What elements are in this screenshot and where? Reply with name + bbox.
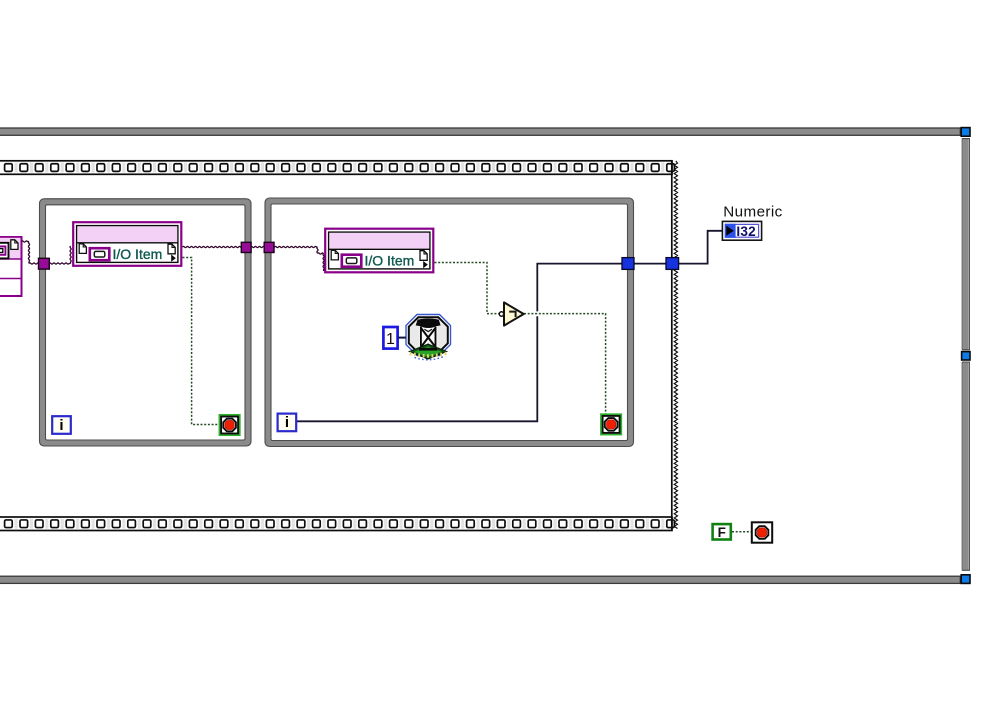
wire G2 (boolean dotted, N2 to Not gate) [435,263,500,314]
label Numeric [723,203,782,220]
flat sequence structure top border (filmstrip) [0,161,674,175]
outer while loop right border [962,138,970,570]
svg-text:I/O Item: I/O Item [365,253,415,269]
wire W2 (I/O wavy, N1 to N2 through tunnels T2 T3) [183,246,325,271]
property node N1 (I/O Item, left loop) [73,222,181,266]
svg-text:F: F [718,525,726,540]
stop button S2 (loop 2 condition terminal) [601,414,621,434]
svg-text:i: i [285,414,289,431]
iteration terminal [i] (loop 1) [52,416,71,434]
outer while loop bottom border [0,576,960,583]
flat sequence structure right border [672,161,678,530]
stop button S3 (outer loop condition terminal) [752,522,772,542]
svg-text:I32: I32 [736,224,756,239]
while loop 2 border [265,198,634,447]
numeric constant 1 [383,327,397,349]
tunnel T3 (purple, loop2 left border) [264,242,274,252]
svg-text:i: i [59,417,63,434]
boolean constant F [713,524,731,540]
svg-text:Numeric: Numeric [723,203,782,220]
property node N0 (partially visible at left edge) [0,237,22,296]
wire (constant 1 to Wait function) [398,337,406,339]
wire W1 (I/O wavy, N0 to N1 through tunnel T1) [22,241,72,264]
Numeric indicator terminal (I32) [722,221,761,240]
svg-text:1: 1 [386,331,395,348]
wire G4 (boolean dotted, F to stop button S3) [732,531,752,533]
while loop 1 border [40,199,252,446]
tunnel (blue, outer loop top-right) [961,128,970,137]
wire G1 (boolean dotted, N1 to stop button S1) [183,258,220,425]
svg-text:I/O Item: I/O Item [113,246,163,262]
flat sequence structure bottom border (filmstrip) [0,517,674,531]
tunnel (blue, outer loop mid-right) [962,352,970,360]
Wait (ms) function U2 [406,315,451,360]
tunnel T5 (blue, sequence right border) [666,258,679,270]
iteration terminal [i] (loop 2) [278,414,297,432]
tunnel (blue, outer loop bottom-right) [961,575,970,584]
outer while loop top border [0,128,960,135]
property node N2 (I/O Item, right loop) [325,229,433,273]
wire G3 (boolean dotted, Not gate to stop button S2) [524,314,606,414]
tunnel T4 (blue, loop2 right border) [622,258,634,270]
Not gate U1 (boolean) [499,302,523,325]
stop button S1 (loop 1 condition terminal) [219,415,239,435]
tunnel T1 (purple, loop1 left border) [39,258,50,269]
wire B1 (I32, iteration terminal to Numeric indicator) [296,231,722,421]
tunnel T2 (purple, loop1 right border) [241,242,251,252]
